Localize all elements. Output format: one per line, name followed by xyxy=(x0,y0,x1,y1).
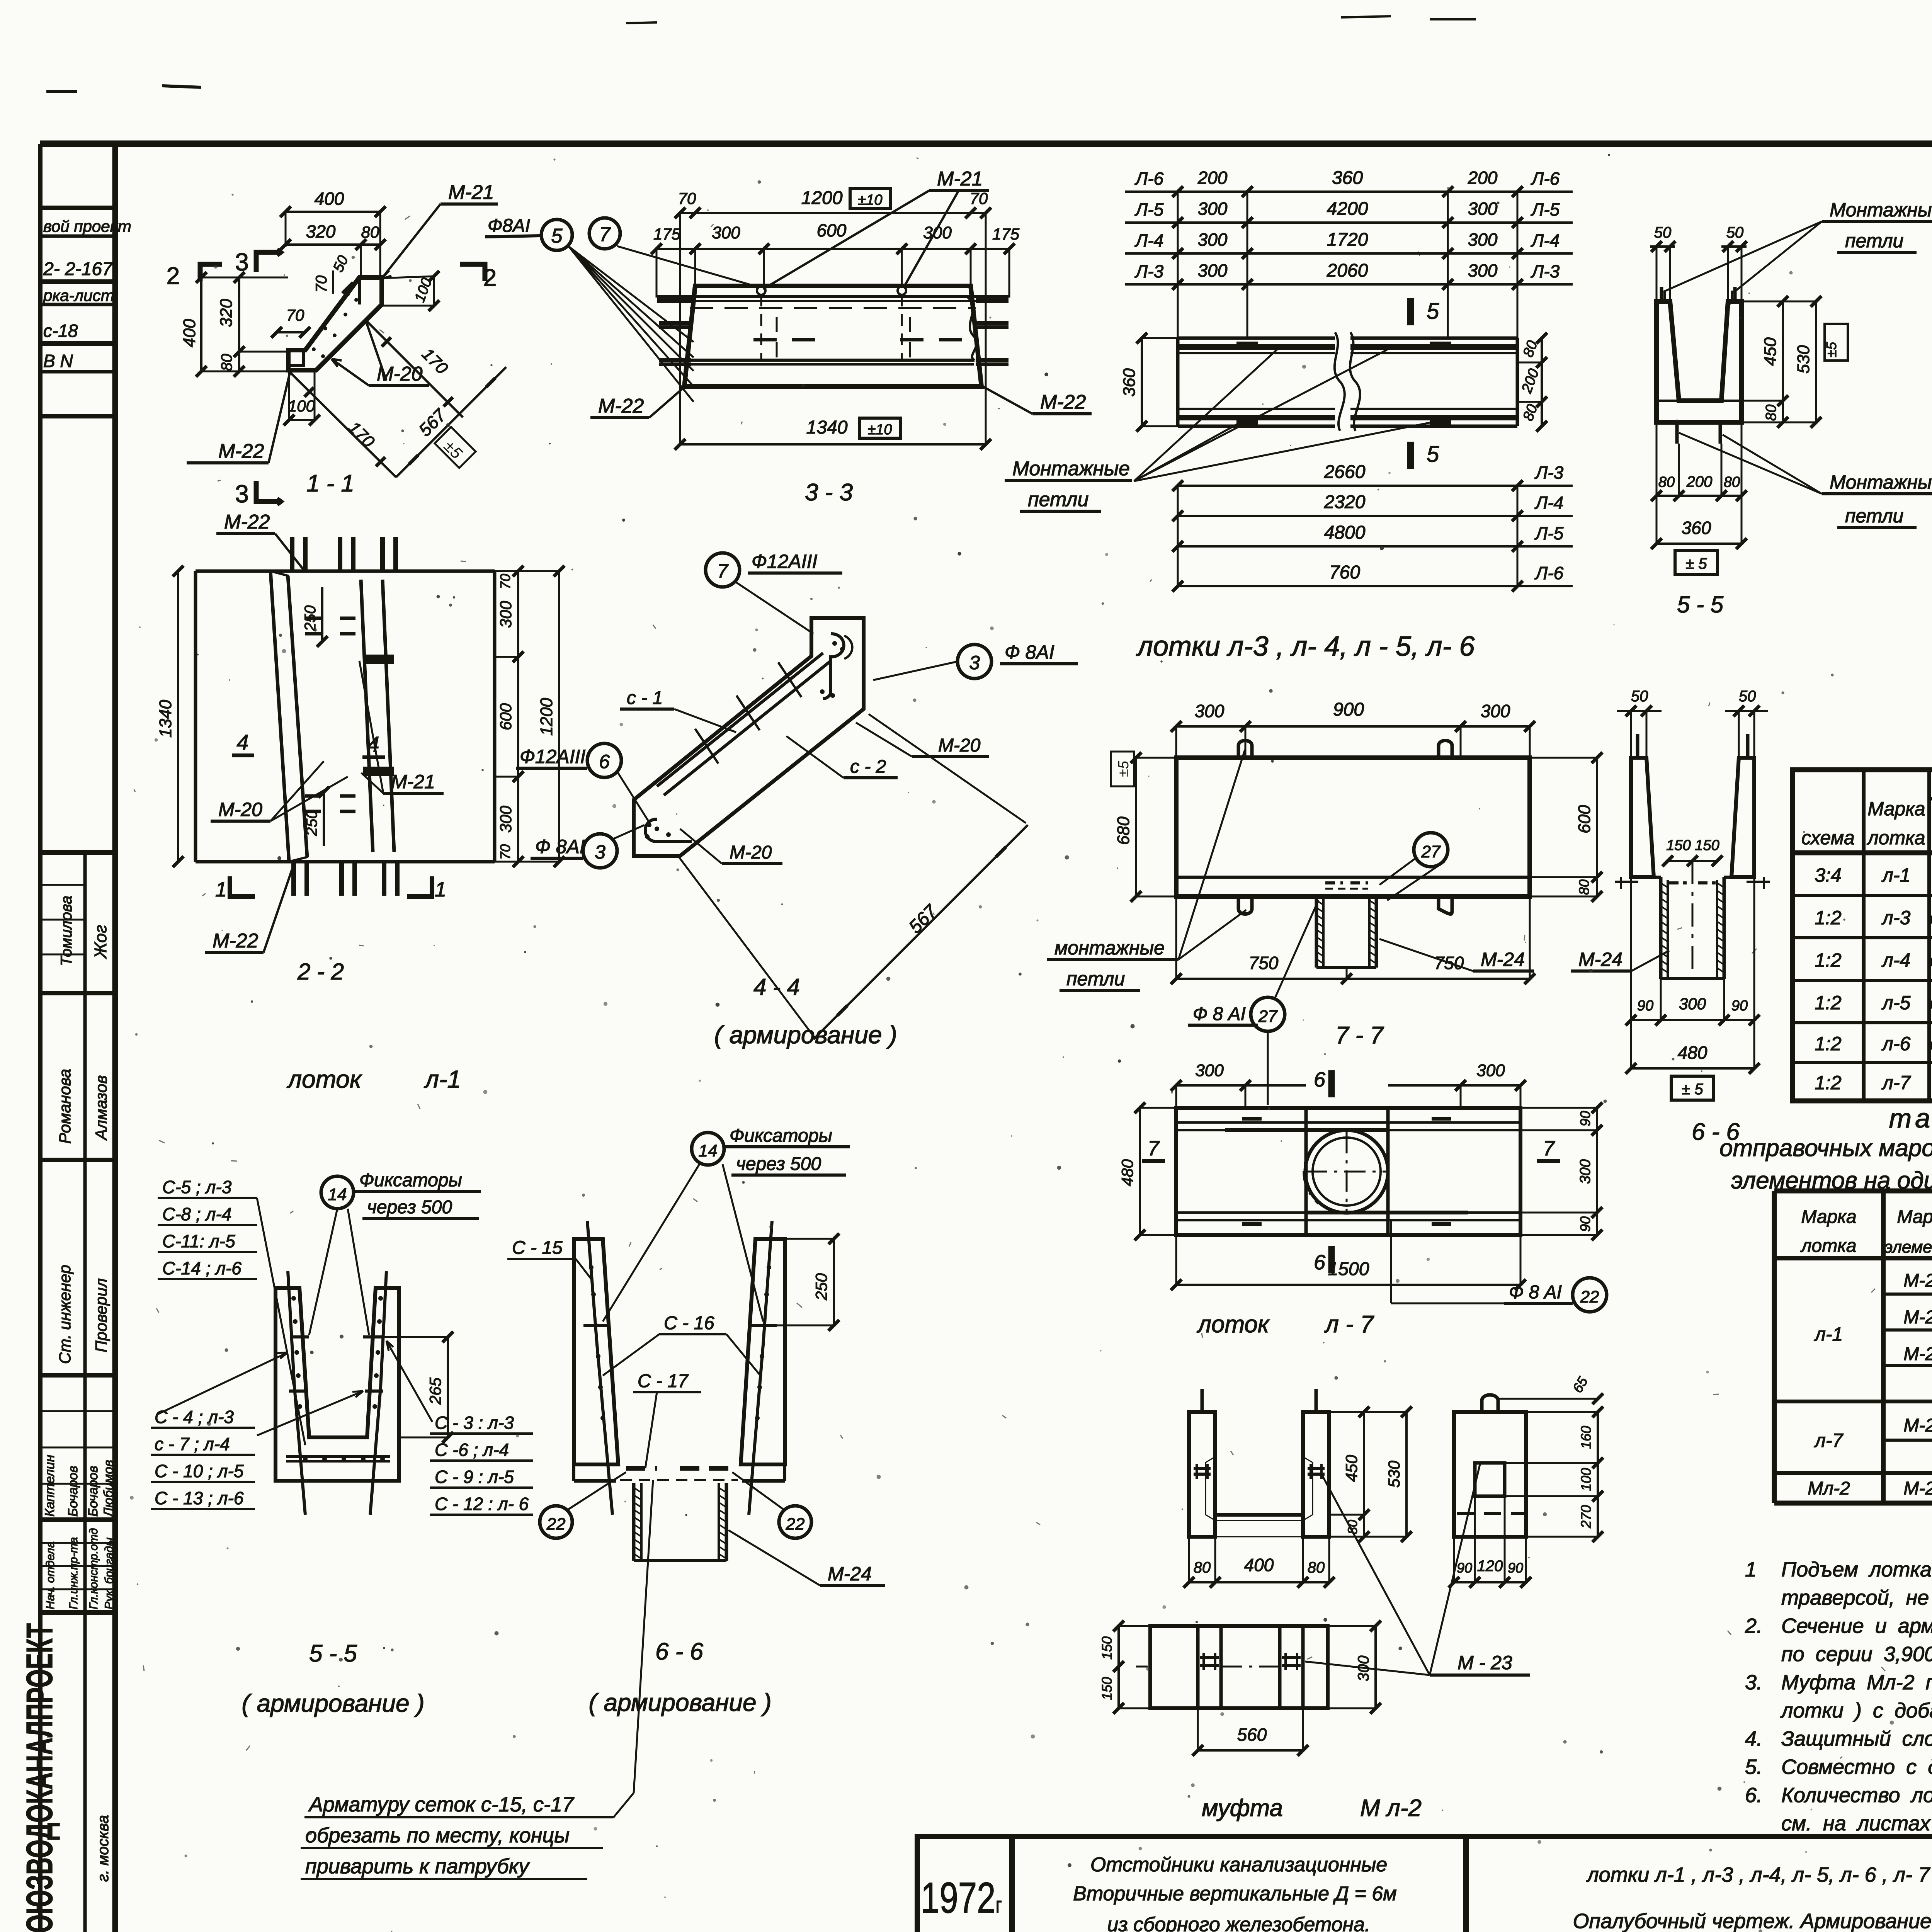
svg-text:1:2: 1:2 xyxy=(1815,1033,1842,1054)
svg-text:1340: 1340 xyxy=(806,417,848,438)
svg-text:320: 320 xyxy=(306,221,336,241)
svg-text:Вторичные вертикальные Д = 6м: Вторичные вертикальные Д = 6м xyxy=(1073,1883,1397,1905)
svg-text:70: 70 xyxy=(497,574,513,589)
svg-text:Проверил: Проверил xyxy=(92,1278,110,1352)
svg-text:50: 50 xyxy=(1739,688,1756,705)
svg-text:Нач. отдела: Нач. отдела xyxy=(44,1541,57,1609)
dim 265 right xyxy=(447,1337,449,1437)
svg-text:300: 300 xyxy=(1476,1061,1505,1080)
leader fan xyxy=(1134,419,1246,481)
svg-text:5: 5 xyxy=(1427,299,1439,324)
svg-text:Муфта Мл-2 принята по серии: Муфта Мл-2 принята по серии КС-02-14 (сб… xyxy=(1781,1671,1932,1694)
svg-text:петли: петли xyxy=(1845,505,1903,527)
svg-text:265: 265 xyxy=(426,1377,444,1405)
svg-text:С-14 ; л-6: С-14 ; л-6 xyxy=(162,1258,241,1278)
svg-text:М-22: М-22 xyxy=(1040,391,1086,413)
svg-text:450: 450 xyxy=(1342,1454,1361,1482)
svg-text:Фиксаторы: Фиксаторы xyxy=(730,1126,832,1146)
svg-text:3: 3 xyxy=(235,480,249,508)
svg-text:Марка: Марка xyxy=(1897,1207,1932,1227)
svg-text:3 - 3: 3 - 3 xyxy=(805,479,853,506)
section 4-4 reinforcement diagonal xyxy=(516,551,1078,1049)
section 2-2 plan of lotok L-1 xyxy=(156,511,565,1093)
svg-text:175: 175 xyxy=(653,225,681,243)
svg-text:М-20: М-20 xyxy=(938,735,981,756)
svg-text:80: 80 xyxy=(1194,1559,1211,1576)
dim row Л-3 top xyxy=(1125,283,1573,286)
svg-text:Л-4: Л-4 xyxy=(1134,230,1163,250)
svg-text:М-21: М-21 xyxy=(448,181,494,204)
svg-text:4800: 4800 xyxy=(1324,522,1366,543)
svg-text:по серии 3,900 -2 выпуск 6.: по серии 3,900 -2 выпуск 6. xyxy=(1781,1643,1932,1666)
svg-text:90: 90 xyxy=(1577,1216,1593,1232)
svg-text:( армирование ): ( армирование ) xyxy=(714,1021,897,1049)
svg-text:±5: ±5 xyxy=(1116,760,1132,777)
svg-text:из сборного железобетона.: из сборного железобетона. xyxy=(1107,1913,1371,1932)
hooks left right xyxy=(1615,881,1638,883)
svg-text:1972г: 1972г xyxy=(921,1874,1002,1922)
svg-text:л-4: л-4 xyxy=(1881,949,1911,971)
svg-text:0.345: 0.345 xyxy=(1930,909,1932,928)
svg-text:1: 1 xyxy=(435,878,446,901)
right dims 300/600/300 and 1200 xyxy=(517,571,519,862)
svg-text:7: 7 xyxy=(599,223,611,246)
dim row Л-6 top xyxy=(1125,190,1573,193)
dims 150 150 xyxy=(1668,860,1717,862)
svg-text:400: 400 xyxy=(1244,1555,1274,1575)
section 6-6 of L-7 xyxy=(1571,688,1770,1145)
svg-text:530: 530 xyxy=(1794,345,1813,374)
svg-text:22: 22 xyxy=(786,1515,805,1534)
svg-text:90: 90 xyxy=(1731,998,1748,1014)
loops bottom xyxy=(1238,896,1252,914)
dim row 175-300-600-300-175 xyxy=(656,248,1009,250)
svg-text:1:2: 1:2 xyxy=(1815,992,1842,1014)
svg-text:7 - 7: 7 - 7 xyxy=(1335,1022,1384,1049)
top edge stray marks xyxy=(46,90,77,93)
svg-text:С - 13 ; л-6: С - 13 ; л-6 xyxy=(155,1488,244,1508)
svg-text:750: 750 xyxy=(1249,953,1279,973)
svg-text:Бочаров: Бочаров xyxy=(86,1466,100,1517)
svg-text:300: 300 xyxy=(1468,260,1498,281)
svg-text:траверсой, не допуская переда: траверсой, не допуская передачи распора … xyxy=(1781,1586,1932,1609)
svg-text:Подъем лотка за верхние пе: Подъем лотка за верхние петли осуществля… xyxy=(1781,1558,1932,1581)
svg-text:90: 90 xyxy=(1508,1560,1523,1576)
svg-text:с - 7 ; л-4: с - 7 ; л-4 xyxy=(155,1434,230,1454)
svg-text:рка-лист: рка-лист xyxy=(43,286,114,304)
svg-text:петли: петли xyxy=(1028,488,1088,511)
svg-text:5: 5 xyxy=(551,225,563,247)
svg-text:М-24: М-24 xyxy=(1481,949,1525,970)
svg-text:80: 80 xyxy=(1724,474,1740,490)
callout 14 + fixators xyxy=(321,1176,354,1209)
right rebar stubs xyxy=(976,295,1009,299)
svg-text:22: 22 xyxy=(1580,1287,1599,1306)
svg-text:300: 300 xyxy=(1468,230,1498,250)
svg-text:Бочаров: Бочаров xyxy=(66,1466,80,1517)
svg-text:Гл.констр.отд: Гл.констр.отд xyxy=(87,1528,100,1609)
lifting loops top xyxy=(1238,741,1252,758)
dim 560 below xyxy=(1198,1749,1303,1752)
leader lines from callout 14 xyxy=(309,1209,337,1335)
dim 400 xyxy=(286,211,380,213)
plan of channels L-3..L-6 xyxy=(1005,168,1573,662)
svg-text:1:2: 1:2 xyxy=(1815,907,1842,929)
svg-text:С -6 ; л-4: С -6 ; л-4 xyxy=(435,1440,509,1460)
callout 14 + fixators xyxy=(692,1133,724,1165)
callouts 22 xyxy=(540,1506,572,1538)
svg-text:М-20: М-20 xyxy=(218,799,262,820)
svg-text:М-20: М-20 xyxy=(730,842,772,863)
svg-text:обрезать по месту, концы: обрезать по месту, концы xyxy=(305,1824,570,1847)
svg-text:Ф 8 АI: Ф 8 АI xyxy=(1193,1004,1246,1024)
svg-text:300: 300 xyxy=(497,805,515,833)
svg-text:300: 300 xyxy=(497,600,515,628)
dim 300 right xyxy=(1374,1626,1377,1708)
svg-text:Ф 8АI: Ф 8АI xyxy=(1005,641,1054,663)
slab outline xyxy=(684,286,981,386)
svg-text:М-22: М-22 xyxy=(213,930,259,952)
50 dims above xyxy=(1617,710,1662,712)
diagonal rebar lines xyxy=(657,653,823,786)
dims below 90/300/90 xyxy=(1631,1019,1754,1021)
svg-text:400: 400 xyxy=(315,189,344,209)
protruding rebars top xyxy=(290,537,294,571)
piece outline xyxy=(288,277,382,370)
dims 450/530 right xyxy=(1782,301,1784,401)
svg-text:680: 680 xyxy=(1114,816,1133,845)
dim 100 bottom xyxy=(289,419,315,421)
svg-text:14: 14 xyxy=(328,1185,347,1204)
svg-text:Опалубочный чертеж. Армиро: Опалубочный чертеж. Армирование.Варианты… xyxy=(1573,1910,1932,1932)
svg-text:М-23: М-23 xyxy=(1903,1478,1932,1499)
svg-text:С - 4 ; л-3: С - 4 ; л-3 xyxy=(155,1407,234,1427)
svg-text:Ф 8АI: Ф 8АI xyxy=(535,836,585,857)
svg-text:М-22: М-22 xyxy=(218,440,264,463)
svg-text:С - 3 : л-3: С - 3 : л-3 xyxy=(435,1413,514,1433)
dims below 80/200/80 xyxy=(1656,495,1742,497)
svg-text:отправочных марок закладных: отправочных марок закладных xyxy=(1719,1135,1932,1162)
vertical rebars extending below xyxy=(288,1271,305,1515)
cut square around hole xyxy=(1304,1109,1308,1235)
U section outline xyxy=(276,1288,399,1481)
svg-text:6: 6 xyxy=(1314,1068,1326,1091)
mid dashes xyxy=(753,338,777,342)
svg-text:М-24: М-24 xyxy=(1578,949,1622,970)
svg-text:150: 150 xyxy=(1666,837,1690,854)
svg-text:Ф8АI: Ф8АI xyxy=(488,216,530,236)
dim 360 left rotated xyxy=(1141,338,1143,426)
title block xyxy=(917,1837,1932,1932)
svg-text:70: 70 xyxy=(497,844,513,860)
svg-text:80: 80 xyxy=(1763,405,1779,421)
svg-text:120: 120 xyxy=(1477,1558,1503,1575)
svg-text:М-24: М-24 xyxy=(828,1563,872,1585)
svg-text:5: 5 xyxy=(1427,442,1439,467)
svg-text:Ф12АIII: Ф12АIII xyxy=(520,746,585,767)
svg-text:2060: 2060 xyxy=(1327,260,1368,281)
svg-text:90: 90 xyxy=(1457,1560,1472,1576)
svg-text:1: 1 xyxy=(1745,1558,1757,1581)
dim 750 750 xyxy=(1176,978,1530,980)
rebar loop top xyxy=(823,634,844,699)
dim row 1200 xyxy=(680,212,986,214)
svg-text:5 - 5: 5 - 5 xyxy=(1677,592,1724,617)
left rebar stubs xyxy=(657,295,694,299)
svg-text:2- 2-167: 2- 2-167 xyxy=(43,259,113,279)
svg-text:Романова: Романова xyxy=(56,1069,74,1144)
bottom connection + pipe xyxy=(1631,876,1661,879)
dim row Л-5 top xyxy=(1125,221,1573,224)
svg-text:600: 600 xyxy=(817,220,847,240)
svg-text:лотка: лотка xyxy=(1800,1236,1856,1256)
svg-text:Ф 8 АI: Ф 8 АI xyxy=(1509,1282,1562,1303)
svg-text:2: 2 xyxy=(167,263,180,289)
svg-text:таблица: таблица xyxy=(1889,1103,1932,1133)
svg-text:Арматуру сеток с-15, с-17: Арматуру сеток с-15, с-17 xyxy=(308,1793,575,1816)
svg-text:М-22: М-22 xyxy=(598,395,644,417)
svg-text:( армирование ): ( армирование ) xyxy=(588,1689,771,1716)
svg-text:Монтажные: Монтажные xyxy=(1830,199,1932,221)
svg-text:270: 270 xyxy=(1578,1505,1594,1529)
svg-text:Л-6: Л-6 xyxy=(1134,168,1164,189)
section 6 marks xyxy=(1328,1070,1335,1097)
svg-text:560: 560 xyxy=(1237,1725,1267,1745)
svg-text:лотки л-3 , л- 4, л - 5, л-: лотки л-3 , л- 4, л - 5, л- 6 xyxy=(1136,631,1475,662)
svg-text:22: 22 xyxy=(546,1515,566,1534)
vertical lines xyxy=(1862,770,1866,1101)
dims below 80/400/80 xyxy=(1189,1581,1329,1583)
svg-text:1 - 1: 1 - 1 xyxy=(306,470,354,497)
svg-text:1:2: 1:2 xyxy=(1815,949,1842,971)
dims right 90/300/90 xyxy=(1596,1108,1598,1235)
svg-text:3:4: 3:4 xyxy=(1815,864,1842,886)
svg-text:( армирование ): ( армирование ) xyxy=(241,1689,424,1717)
header lines xyxy=(1929,797,1932,801)
svg-text:М-20: М-20 xyxy=(1903,1270,1932,1291)
svg-text:Ф12АIII: Ф12АIII xyxy=(752,551,817,572)
svg-text:250: 250 xyxy=(812,1273,830,1301)
svg-text:175: 175 xyxy=(992,225,1020,243)
svg-text:Любимов: Любимов xyxy=(101,1460,116,1517)
rebar dashes inside xyxy=(305,617,321,620)
svg-text:±5: ±5 xyxy=(1823,342,1839,357)
svg-text:схема: схема xyxy=(1801,827,1855,849)
big dashes (embedded M-24 zone) xyxy=(626,1466,657,1471)
plan of lotok L-7 xyxy=(1118,1061,1607,1338)
svg-text:90: 90 xyxy=(1577,1111,1593,1126)
svg-text:Л-5: Л-5 xyxy=(1531,199,1560,219)
svg-text:Марка: Марка xyxy=(1801,1207,1856,1227)
section cut 5 marks xyxy=(1407,298,1414,325)
svg-text:вой проект: вой проект xyxy=(43,217,131,235)
dims right of block xyxy=(1597,1412,1599,1537)
dim 480 xyxy=(1631,1067,1754,1070)
dims above 300/900/300 xyxy=(1176,725,1530,728)
svg-text:1200: 1200 xyxy=(801,188,843,208)
svg-text:муфта: муфта xyxy=(1202,1795,1283,1821)
dims 80/200/80 right rotated xyxy=(1541,338,1543,426)
svg-text:лотки л-1 , л-3 , л-4, л- 5: лотки л-1 , л-3 , л-4, л- 5, л- 6 , л- 7… xyxy=(1586,1863,1932,1886)
svg-text:петли: петли xyxy=(1845,230,1903,252)
svg-text:150: 150 xyxy=(1099,1677,1115,1700)
svg-text:200: 200 xyxy=(1197,168,1228,188)
rebar dots xyxy=(291,1296,296,1301)
table of shipping marks xyxy=(1719,1103,1932,1503)
svg-text:6: 6 xyxy=(599,751,610,772)
svg-text:480: 480 xyxy=(1678,1043,1708,1063)
svg-text:М-24: М-24 xyxy=(1903,1415,1932,1436)
dim row Л-6 bottom xyxy=(1178,585,1573,587)
notes (primechaniya) xyxy=(1745,1520,1932,1835)
svg-text:360: 360 xyxy=(1120,368,1139,397)
svg-text:Защитный слой бетона - 20 мм: Защитный слой бетона - 20 мм. xyxy=(1781,1727,1932,1750)
svg-text:Л-6: Л-6 xyxy=(1531,168,1560,189)
svg-text:3: 3 xyxy=(595,841,605,863)
svg-text:6: 6 xyxy=(1314,1251,1326,1274)
callout circles 5 and 7 xyxy=(541,219,572,250)
section 5-5 channel xyxy=(1650,199,1932,617)
svg-text:760: 760 xyxy=(1329,562,1360,583)
svg-text:14: 14 xyxy=(699,1141,718,1160)
svg-text:4: 4 xyxy=(236,730,248,754)
dims right 600/80 xyxy=(1596,758,1598,877)
svg-text:Л-3: Л-3 xyxy=(1534,463,1564,483)
svg-text:С-8 ; л-4: С-8 ; л-4 xyxy=(162,1204,231,1224)
svg-text:Монтажные: Монтажные xyxy=(1830,471,1932,493)
dims 300 top left/right xyxy=(1176,1084,1306,1087)
dim 100 right xyxy=(433,276,435,306)
embedded marks in walls xyxy=(1194,1467,1211,1470)
svg-text:1:2: 1:2 xyxy=(1815,1072,1842,1094)
left stamp column signature blocks xyxy=(40,850,115,855)
section 5-5 reinforcement xyxy=(151,1170,533,1717)
svg-text:2 - 2: 2 - 2 xyxy=(297,959,344,985)
svg-text:Л-4: Л-4 xyxy=(1531,230,1560,250)
svg-text:0.345: 0.345 xyxy=(1930,1035,1932,1054)
svg-text:160: 160 xyxy=(1578,1426,1594,1449)
svg-text:Фиксаторы: Фиксаторы xyxy=(359,1170,462,1190)
svg-text:6 - 6: 6 - 6 xyxy=(1692,1119,1740,1145)
plan rectangle with break xyxy=(1178,337,1335,340)
load table (tablica nagruzok) xyxy=(1793,742,1932,1101)
callout 6 xyxy=(587,743,621,777)
svg-text:3: 3 xyxy=(235,248,249,276)
svg-text:5.: 5. xyxy=(1745,1755,1762,1779)
callout 3 left xyxy=(583,834,617,868)
svg-text:600: 600 xyxy=(497,703,515,730)
svg-text:200: 200 xyxy=(1468,168,1498,188)
dim 1340 xyxy=(680,443,986,446)
protruding rebars bottom xyxy=(291,862,296,896)
svg-text:4200: 4200 xyxy=(1327,199,1368,219)
svg-text:1: 1 xyxy=(215,878,227,901)
rebar dashes xyxy=(1242,1117,1262,1121)
leaders from callout 14 xyxy=(603,1164,699,1321)
svg-text:530: 530 xyxy=(1385,1460,1403,1488)
svg-text:монтажные: монтажные xyxy=(1054,937,1165,959)
svg-text:Жог: Жог xyxy=(91,925,110,959)
svg-text:Л-3: Л-3 xyxy=(1531,261,1560,281)
dim row Л-4 bottom xyxy=(1178,515,1573,517)
svg-text:0.345: 0.345 xyxy=(1930,952,1932,971)
svg-text:л-6: л-6 xyxy=(1881,1033,1911,1054)
svg-text:2320: 2320 xyxy=(1324,492,1366,512)
svg-text:Л-6: Л-6 xyxy=(1534,563,1564,583)
left dim 1340 xyxy=(177,571,179,862)
svg-text:27: 27 xyxy=(1258,1007,1278,1026)
svg-text:300: 300 xyxy=(1577,1159,1594,1184)
svg-text:л-1: л-1 xyxy=(423,1065,461,1093)
svg-text:Мл-2: Мл-2 xyxy=(1808,1478,1850,1499)
svg-text:1720: 1720 xyxy=(1327,230,1368,250)
cross ties xyxy=(778,662,801,697)
dim 360 below xyxy=(1656,543,1742,545)
svg-text:С - 15: С - 15 xyxy=(512,1238,563,1258)
dim 480 left rotated xyxy=(1139,1108,1141,1235)
left dims 400/320/80 xyxy=(200,277,202,371)
svg-text:л-1: л-1 xyxy=(1814,1323,1843,1345)
embedded dashes at pipe top xyxy=(1325,881,1343,884)
svg-text:250: 250 xyxy=(303,810,320,837)
svg-text:300: 300 xyxy=(1195,1061,1224,1080)
svg-text:петли: петли xyxy=(1066,968,1125,990)
svg-text:80: 80 xyxy=(361,223,379,241)
svg-text:С - 17: С - 17 xyxy=(638,1371,689,1391)
svg-text:л-1: л-1 xyxy=(1881,864,1911,886)
svg-text:360: 360 xyxy=(1682,518,1711,538)
svg-text:450: 450 xyxy=(1761,337,1780,366)
loops on top xyxy=(1660,287,1663,301)
svg-text:С - 12 : л- 6: С - 12 : л- 6 xyxy=(435,1494,529,1514)
svg-text:300: 300 xyxy=(1198,199,1228,219)
svg-text:Марка: Марка xyxy=(1867,798,1925,820)
sheet frame xyxy=(40,141,1932,147)
svg-text:±10: ±10 xyxy=(858,192,882,208)
central hole circles xyxy=(1305,1130,1388,1213)
rebar dots xyxy=(832,641,837,646)
svg-text:900: 900 xyxy=(1333,699,1364,720)
svg-text:Л-4: Л-4 xyxy=(1534,493,1563,513)
svg-text:Л-5: Л-5 xyxy=(1134,199,1164,219)
svg-text:400: 400 xyxy=(180,319,199,347)
svg-text:300: 300 xyxy=(712,223,740,242)
embedded marks xyxy=(1200,1656,1219,1659)
svg-text:4.: 4. xyxy=(1745,1727,1762,1750)
svg-text:л-7: л-7 xyxy=(1881,1072,1912,1094)
svg-text:М-22: М-22 xyxy=(1903,1344,1932,1364)
svg-text:80: 80 xyxy=(218,354,235,371)
svg-text:±10: ±10 xyxy=(867,422,892,438)
svg-text:90: 90 xyxy=(1637,998,1653,1014)
svg-text:70: 70 xyxy=(286,306,304,324)
mufta ML-2 plan xyxy=(1150,1626,1328,1708)
outline xyxy=(1176,758,1530,896)
svg-text:5 - 5: 5 - 5 xyxy=(309,1640,357,1667)
svg-text:3: 3 xyxy=(969,652,980,673)
callout 3 right xyxy=(957,645,992,679)
svg-text:приварить к патрубку: приварить к патрубку xyxy=(305,1855,530,1878)
right break squiggle xyxy=(968,298,977,360)
svg-text:С-5 ; л-3: С-5 ; л-3 xyxy=(162,1177,232,1197)
svg-text:27: 27 xyxy=(1421,842,1441,861)
svg-text:360: 360 xyxy=(1332,168,1363,188)
pipe stub below xyxy=(1315,896,1318,968)
svg-text:80: 80 xyxy=(1576,879,1592,895)
diagonal band outline xyxy=(634,618,864,856)
svg-text:Л-5: Л-5 xyxy=(1534,523,1564,543)
svg-text:с-18: с-18 xyxy=(43,321,78,341)
